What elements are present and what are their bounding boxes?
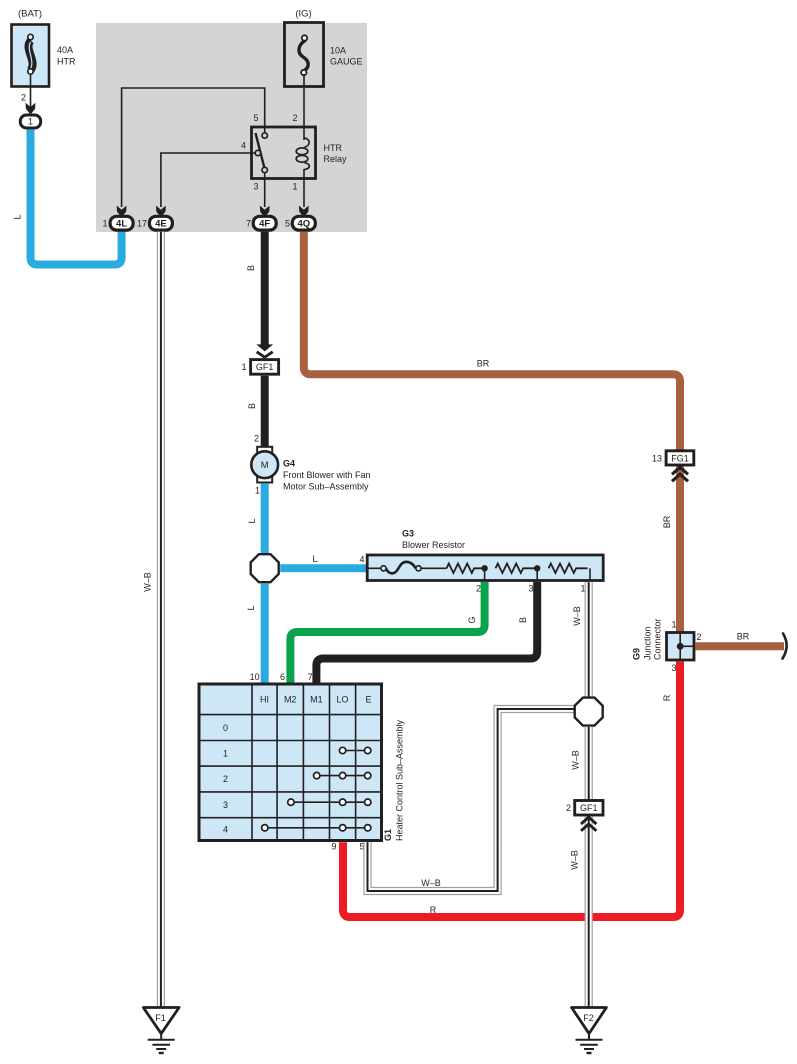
svg-text:HTR: HTR	[324, 143, 343, 153]
connector 4E	[149, 216, 172, 230]
connector GF1 (1)	[251, 360, 279, 375]
svg-text:R: R	[662, 694, 672, 701]
svg-text:G1: G1	[383, 829, 393, 841]
svg-text:BR: BR	[477, 359, 490, 369]
wire B GF1 to motor	[261, 376, 269, 447]
arrow into 4E	[156, 206, 166, 218]
wire W-B from G1 pin5 to junction octagon	[368, 709, 576, 891]
junction connector G9	[667, 633, 695, 661]
svg-text:Connector: Connector	[652, 618, 662, 660]
svg-text:B: B	[518, 617, 528, 623]
svg-text:Relay: Relay	[324, 154, 348, 164]
svg-text:GF1: GF1	[256, 362, 274, 372]
wire L junction to resistor pin4 (cyan)	[280, 564, 368, 572]
junction node (octagon, W-B net)	[575, 698, 603, 726]
svg-text:4: 4	[223, 824, 228, 834]
switch row 2 contacts M1-LO-E	[314, 772, 371, 778]
svg-text:1: 1	[255, 486, 260, 496]
svg-text:1: 1	[223, 749, 228, 759]
wire fuse to connector 1	[30, 75, 32, 108]
svg-text:L: L	[13, 214, 23, 219]
svg-text:W–B: W–B	[571, 750, 581, 770]
svg-text:B: B	[247, 403, 257, 409]
svg-text:2: 2	[254, 433, 259, 443]
heater control sub-assembly G1 (table)	[199, 684, 382, 841]
wire B from G3 pin3 to heater control pin7 (black)	[316, 582, 537, 684]
svg-text:HI: HI	[260, 695, 269, 705]
svg-text:M1: M1	[310, 695, 323, 705]
ground F1	[143, 1008, 179, 1054]
connector 4F	[253, 216, 276, 230]
svg-text:BR: BR	[737, 631, 750, 641]
svg-text:1: 1	[28, 117, 33, 127]
wire B from 4F to GF1	[261, 232, 269, 346]
wire relay pin3 down	[264, 172, 266, 207]
svg-text:G3: G3	[402, 529, 414, 539]
svg-text:2: 2	[697, 632, 702, 642]
wire W-B junction to GF1 (2)	[585, 727, 593, 801]
svg-text:4: 4	[359, 555, 364, 565]
svg-text:3: 3	[223, 800, 228, 810]
wire R from G1 pin9 to G9 pin3 (red)	[343, 662, 680, 918]
arrow into connector 1	[26, 103, 36, 115]
svg-text:7: 7	[308, 672, 313, 682]
svg-text:BR: BR	[662, 515, 672, 528]
svg-text:2: 2	[566, 803, 571, 813]
svg-text:4Q: 4Q	[297, 219, 310, 230]
svg-text:G4: G4	[283, 458, 295, 468]
svg-text:L: L	[246, 605, 256, 610]
svg-text:GF1: GF1	[580, 803, 598, 813]
svg-text:B: B	[246, 265, 256, 271]
svg-text:2: 2	[476, 583, 481, 593]
svg-text:2: 2	[292, 113, 297, 123]
switch row 1 contacts LO-E	[339, 747, 371, 753]
wire relay pin4 to 4E (thin)	[161, 153, 255, 207]
svg-text:5: 5	[285, 218, 290, 228]
wire W-B from 4E to ground F1	[157, 232, 165, 1008]
svg-text:Junction: Junction	[642, 626, 652, 660]
svg-text:4: 4	[241, 141, 246, 151]
wire relay pin1 down	[303, 169, 305, 207]
svg-text:E: E	[365, 695, 371, 705]
svg-text:10A: 10A	[330, 46, 346, 56]
wire G from G3 pin2 to heater control pin6 (green)	[290, 582, 484, 684]
svg-text:GAUGE: GAUGE	[330, 57, 363, 67]
wire IG fuse to relay coil pin2	[303, 74, 305, 140]
svg-text:13: 13	[652, 453, 662, 463]
svg-text:Motor Sub–Assembly: Motor Sub–Assembly	[283, 481, 369, 491]
switch row 3 contacts M2-LO-E	[288, 799, 371, 805]
relay HTR (box)	[252, 127, 316, 179]
svg-text:Blower Resistor: Blower Resistor	[402, 540, 465, 550]
svg-text:5: 5	[253, 113, 258, 123]
svg-text:Front Blower with Fan: Front Blower with Fan	[283, 470, 371, 480]
svg-text:1: 1	[102, 218, 107, 228]
arrow out of GF1 (up double chevron)	[581, 817, 596, 824]
svg-text:L: L	[247, 518, 257, 523]
wire continuation squiggle	[783, 634, 787, 659]
svg-text:4F: 4F	[259, 219, 270, 230]
svg-text:W–B: W–B	[570, 850, 580, 870]
svg-text:(IG): (IG)	[295, 9, 311, 20]
connector GF1 (2)	[575, 801, 603, 816]
svg-text:M2: M2	[284, 695, 297, 705]
svg-text:1: 1	[292, 182, 297, 192]
arrow into 4L	[117, 206, 127, 218]
svg-text:W–B: W–B	[143, 572, 153, 592]
wire W-B GF1 to ground F2	[585, 817, 593, 1008]
svg-text:17: 17	[137, 218, 147, 228]
fuse 10A GAUGE (IG)	[285, 23, 324, 87]
wire BR from 4Q to FG1 (brown)	[304, 232, 680, 451]
connector 1 (oval)	[20, 115, 40, 128]
relay coil	[304, 138, 309, 147]
svg-text:G: G	[467, 616, 477, 623]
arrow into 4Q	[299, 206, 309, 218]
junction/engine-room block (gray background)	[96, 23, 367, 232]
svg-text:6: 6	[280, 672, 285, 682]
ground F2	[572, 1008, 607, 1054]
svg-text:3: 3	[671, 663, 676, 673]
svg-text:10: 10	[250, 672, 260, 682]
svg-text:M: M	[261, 460, 269, 471]
svg-text:2: 2	[21, 93, 26, 103]
svg-text:L: L	[312, 554, 317, 564]
svg-text:7: 7	[246, 218, 251, 228]
blower resistor G3	[367, 555, 603, 581]
svg-text:W–B: W–B	[421, 878, 441, 888]
svg-text:40A: 40A	[57, 45, 73, 55]
svg-text:9: 9	[331, 842, 336, 852]
arrow into 4F	[260, 206, 270, 218]
svg-text:R: R	[430, 905, 437, 915]
connector FG1 (13)	[666, 451, 694, 465]
svg-text:LO: LO	[336, 695, 348, 705]
svg-text:1: 1	[671, 620, 676, 630]
relay switch contacts	[256, 133, 265, 168]
wire BR from G9 pin2 to right (brown)	[696, 642, 784, 650]
junction node (octagon, L net)	[251, 554, 279, 582]
wire BR FG1 to G9 (brown)	[676, 467, 684, 634]
svg-text:4L: 4L	[116, 219, 127, 230]
svg-text:FG1: FG1	[671, 453, 689, 463]
connector 4Q	[292, 216, 315, 230]
svg-text:F2: F2	[583, 1013, 594, 1023]
wire L (cyan) from connector 1 to 4L	[31, 130, 122, 265]
svg-text:3: 3	[253, 182, 258, 192]
connector 4L	[110, 216, 133, 230]
wire relay pin5 to 4L (thin)	[122, 88, 265, 207]
arrow into GF1 (double chevron)	[256, 344, 273, 351]
svg-text:HTR: HTR	[57, 57, 76, 67]
svg-text:Heater Control Sub–Assembly: Heater Control Sub–Assembly	[395, 719, 405, 841]
svg-text:W–B: W–B	[572, 606, 582, 626]
svg-text:(BAT): (BAT)	[18, 9, 42, 20]
svg-text:1: 1	[241, 362, 246, 372]
wire L junction to heater control pin10 (cyan)	[261, 584, 269, 684]
svg-text:4E: 4E	[155, 219, 167, 230]
motor G4 (front blower)	[251, 447, 278, 483]
svg-text:2: 2	[223, 774, 228, 784]
arrow out of FG1 (up double chevron)	[672, 467, 688, 474]
fuse 40A HTR (fusible link, BAT)	[12, 25, 50, 87]
wire L motor to junction (cyan)	[261, 484, 269, 556]
switch row 4 contacts HI-LO-E	[262, 825, 371, 831]
svg-text:F1: F1	[155, 1013, 166, 1023]
wire W-B from G3 pin1 to junction octagon	[585, 582, 593, 699]
svg-text:3: 3	[528, 583, 533, 593]
svg-text:0: 0	[223, 723, 228, 733]
svg-text:G9: G9	[632, 648, 642, 660]
